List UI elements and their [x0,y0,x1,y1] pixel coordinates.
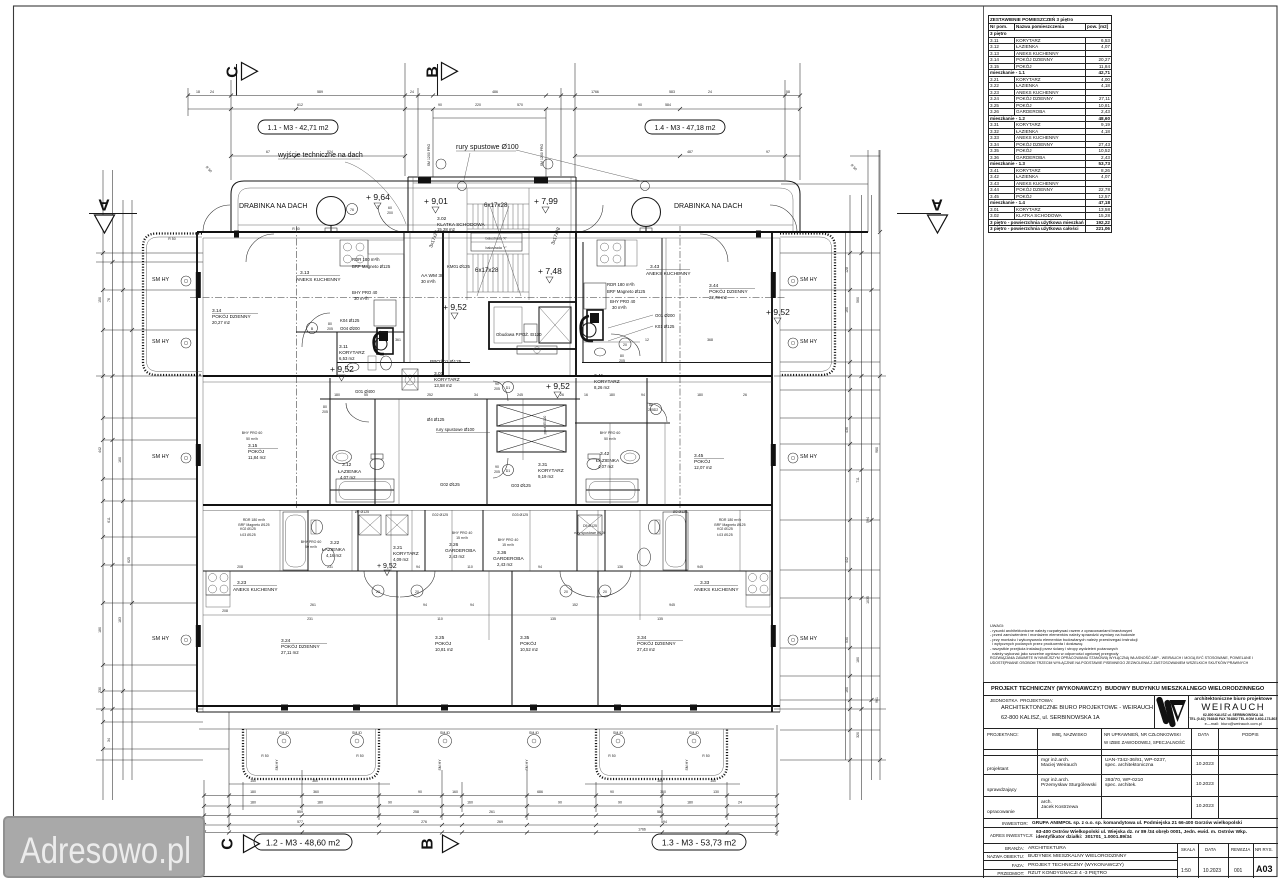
svg-text:150: 150 [98,297,102,303]
svg-text:+ 9,64: + 9,64 [366,192,390,202]
svg-text:SM-ID: SM-ID [440,731,450,735]
svg-text:16: 16 [584,393,588,397]
svg-text:559: 559 [297,810,303,814]
svg-text:76: 76 [350,208,354,212]
svg-text:320: 320 [856,732,860,738]
svg-text:15,28 m2: 15,28 m2 [437,227,456,232]
svg-text:+ 7,99: + 7,99 [534,196,558,206]
svg-text:3.02: 3.02 [437,216,447,222]
design office row with logo [984,696,1278,729]
svg-text:3.26: 3.26 [449,542,459,548]
svg-text:BRF Magneto Ø125: BRF Magneto Ø125 [607,289,646,294]
svg-text:POKÓJ DZIENNY: POKÓJ DZIENNY [212,313,251,320]
stairwell walls [443,232,576,376]
svg-text:3.23: 3.23 [237,580,247,586]
right dimension band [774,150,886,800]
projektant row [984,756,1278,775]
svg-text:BHY PRO 40: BHY PRO 40 [452,531,473,535]
svg-text:1.3 - M3 - 53,73 m2: 1.3 - M3 - 53,73 m2 [662,838,736,848]
svg-text:3.43: 3.43 [650,264,660,270]
svg-text:589: 589 [317,90,323,94]
roof access ladder label left [239,197,346,233]
roof strip outline [203,181,800,232]
dimension tick marks [101,94,882,835]
svg-text:6x17x28: 6x17x28 [475,267,499,274]
heating unit apt 1.1 [374,300,396,354]
svg-text:RDR 180 m³/h: RDR 180 m³/h [243,518,265,522]
stair landing balustrade [471,233,522,251]
svg-text:B: B [425,66,442,78]
svg-text:220: 220 [475,103,481,107]
internal wall band y505 [203,505,772,511]
svg-text:wyjście techniczne na dach: wyjście techniczne na dach [277,152,363,159]
section marker B bottom [420,835,459,853]
Adresowo.pl watermark [3,816,205,878]
svg-text:1.4 - M3 - 47,18 m2: 1.4 - M3 - 47,18 m2 [654,125,715,132]
svg-text:22,78 m2: 22,78 m2 [709,295,728,300]
room labels apt 1.1 [212,257,391,361]
bathroom apt 1.3 lower (bath band) [638,512,689,570]
svg-text:3.22: 3.22 [330,540,340,546]
svg-text:G03 Ø125: G03 Ø125 [512,513,528,517]
svg-text:20: 20 [415,590,419,594]
svg-text:POKÓJ DZIENNY: POKÓJ DZIENNY [709,288,748,295]
svg-text:94: 94 [538,565,542,569]
bottom dimension lines [204,712,777,836]
svg-text:ppoż. EI120: ppoż. EI120 [543,416,547,435]
roof access ladder label right [632,198,743,233]
svg-text:136: 136 [617,565,623,569]
svg-text:269: 269 [497,820,503,824]
svg-text:584: 584 [665,103,671,107]
room schedule table top right [988,15,1112,233]
svg-text:180: 180 [609,393,615,397]
section marker A left [89,196,137,234]
svg-text:160: 160 [845,307,849,313]
apartment label oval 1.4 [645,120,725,134]
svg-text:R 50: R 50 [850,163,858,171]
svg-text:135: 135 [657,617,663,621]
svg-text:BHY PRO 40: BHY PRO 40 [498,538,519,542]
svg-text:POKÓJ: POKÓJ [520,640,537,647]
svg-text:Ø2 Ø125: Ø2 Ø125 [673,510,687,514]
svg-text:+ 9,52: + 9,52 [377,563,397,570]
svg-text:205: 205 [494,387,500,391]
svg-text:980: 980 [875,447,879,453]
interior dimension numbers y396 [334,393,747,397]
elevation labels with triangles [330,192,790,576]
downspout label [456,144,650,191]
section marker A right [897,196,948,234]
svg-text:ANEKS KUCHENNY: ANEKS KUCHENNY [233,587,278,593]
svg-text:K02 Ø125: K02 Ø125 [240,527,256,531]
apartment 1.1 corridor walls upper band [296,332,404,376]
ventilation shafts with cross bracing [359,369,566,535]
svg-text:30 m³/h: 30 m³/h [421,279,436,284]
SM HY markers on side galleries [152,276,817,645]
svg-text:SM 1200 PRO: SM 1200 PRO [427,143,431,166]
apartment 1.4 entry walls upper band [583,238,662,356]
svg-text:2,43 m2: 2,43 m2 [497,562,513,567]
roof exit label [277,152,406,224]
svg-text:PPOŻ01 Ø125: PPOŻ01 Ø125 [430,358,462,365]
svg-text:10,81 m2: 10,81 m2 [435,647,454,652]
svg-text:180: 180 [334,393,340,397]
svg-text:945: 945 [697,565,703,569]
svg-text:R 50: R 50 [168,237,175,241]
door circles [307,204,662,598]
svg-text:2,43 m2: 2,43 m2 [449,554,465,559]
svg-text:24: 24 [738,801,742,805]
svg-text:SM HY: SM HY [685,759,689,771]
interior dimension row y615 [203,603,772,621]
svg-text:442: 442 [98,447,102,453]
apartment label oval 1.1 [258,120,338,134]
svg-text:90: 90 [610,790,614,794]
svg-text:110: 110 [467,565,473,569]
svg-text:3.44: 3.44 [709,283,719,289]
svg-text:611: 611 [107,517,111,523]
internal partial walls middle band [320,363,772,491]
internal vertical walls upper band [404,232,666,362]
bottom meta rows [984,844,1278,878]
svg-text:O04 Ø200: O04 Ø200 [340,326,360,331]
svg-text:balustrada 'X': balustrada 'X' [486,237,507,241]
svg-text:B: B [311,327,314,331]
svg-text:Ł03 Ø125: Ł03 Ø125 [717,533,732,537]
svg-text:94: 94 [416,565,420,569]
svg-text:24: 24 [410,90,414,94]
bathroom apt 1.2 (middle band left) [333,451,395,503]
svg-text:+ 9,52: + 9,52 [443,302,467,312]
room labels apt 1.4 [594,264,755,390]
svg-text:K01 Ø125: K01 Ø125 [655,324,675,329]
svg-text:18: 18 [196,90,200,94]
svg-text:34: 34 [107,738,111,742]
svg-text:94: 94 [470,603,474,607]
svg-text:POKÓJ: POKÓJ [435,640,452,647]
svg-text:4,07 m2: 4,07 m2 [598,464,614,469]
sprawdzajacy row [984,775,1278,797]
wardrobe X-box right bath band [578,515,602,535]
section marker C bottom [220,835,260,853]
svg-text:SM HY: SM HY [152,636,169,642]
left dimension band [96,170,229,800]
svg-text:231: 231 [327,565,333,569]
svg-text:361: 361 [395,338,401,342]
svg-text:KM01 Ø125: KM01 Ø125 [447,264,471,269]
svg-text:POKÓJ: POKÓJ [248,448,265,455]
svg-text:50 m³/h: 50 m³/h [604,437,616,441]
upper-right balcony railing [780,234,835,376]
svg-text:11,84 m2: 11,84 m2 [248,455,266,460]
svg-text:SM HY: SM HY [438,759,442,771]
svg-text:30 m³/h: 30 m³/h [354,296,369,301]
svg-text:Ø2 Ø125: Ø2 Ø125 [355,510,369,514]
axis lines [190,226,786,510]
svg-text:442: 442 [845,557,849,563]
svg-text:80: 80 [328,322,332,326]
svg-text:231: 231 [307,617,313,621]
svg-text:205: 205 [327,327,333,331]
svg-text:160: 160 [845,687,849,693]
svg-text:34: 34 [474,393,478,397]
svg-text:3.33: 3.33 [700,580,710,586]
svg-text:130: 130 [713,790,719,794]
stair flight lower [467,188,529,300]
svg-text:rury spustowe Ø100: rury spustowe Ø100 [456,144,519,151]
svg-text:BHY PRO 60: BHY PRO 60 [301,540,322,544]
svg-text:3.36: 3.36 [497,550,507,556]
svg-text:3.41: 3.41 [594,373,604,379]
svg-text:8,26 m2: 8,26 m2 [594,385,610,390]
room labels middle band [242,338,724,488]
svg-text:180: 180 [687,801,693,805]
svg-text:577: 577 [297,820,303,824]
svg-text:1.1 - M3 - 42,71 m2: 1.1 - M3 - 42,71 m2 [267,125,328,132]
svg-text:POKÓJ: POKÓJ [694,458,711,465]
UWAGI notes block [990,624,1278,665]
svg-text:584: 584 [657,810,663,814]
svg-text:SM HY: SM HY [800,454,817,460]
svg-text:97: 97 [766,150,770,154]
svg-text:360: 360 [313,790,319,794]
svg-text:205: 205 [494,470,500,474]
svg-text:3.25: 3.25 [435,635,445,641]
svg-text:BHY PRO 60: BHY PRO 60 [242,431,263,435]
svg-text:94: 94 [423,603,427,607]
svg-text:C: C [220,838,237,850]
apartment label oval 1.2 [254,834,352,850]
svg-text:20: 20 [376,590,380,594]
svg-text:20: 20 [603,590,607,594]
inwestor row [984,819,1278,828]
stairwell labels [421,202,562,365]
svg-text:12: 12 [645,338,649,342]
svg-text:K02 Ø125: K02 Ø125 [717,527,733,531]
svg-text:G02 Ø125: G02 Ø125 [440,482,460,487]
weirauch text block [1189,696,1278,729]
svg-text:90: 90 [495,465,499,469]
svg-text:R 50: R 50 [205,165,213,173]
bathroom apt 1.3 (middle band right) [586,451,640,503]
svg-text:3.15: 3.15 [248,443,258,449]
svg-text:DRABINKA NA DACH: DRABINKA NA DACH [239,203,307,210]
svg-text:94: 94 [641,393,645,397]
svg-text:R 50: R 50 [608,754,615,758]
svg-text:205: 205 [619,359,625,363]
main outer walls [197,184,868,729]
designers header row [984,729,1278,750]
svg-text:DRABINKA NA DACH: DRABINKA NA DACH [674,203,742,210]
room labels bottom band [233,510,746,655]
svg-text:135: 135 [550,617,556,621]
svg-text:90: 90 [388,801,392,805]
svg-text:90: 90 [618,801,622,805]
svg-text:SM-ID: SM-ID [689,731,699,735]
svg-text:90: 90 [418,790,422,794]
svg-text:+ 9,52: + 9,52 [546,381,570,391]
svg-text:R 50: R 50 [356,754,363,758]
svg-text:4,16 m2: 4,16 m2 [326,553,342,558]
svg-text:60: 60 [388,206,392,210]
tower window marks [418,143,553,183]
svg-text:3.35: 3.35 [520,635,530,641]
upper-left balcony railing [143,234,202,376]
section marker B top [425,63,458,96]
svg-text:30 m³/h: 30 m³/h [612,305,627,310]
svg-text:3.31: 3.31 [538,462,548,468]
svg-text:BHY PRO 40: BHY PRO 40 [352,290,378,295]
svg-text:R 50: R 50 [702,754,709,758]
svg-text:560: 560 [856,297,860,303]
svg-text:POKÓJ DZIENNY: POKÓJ DZIENNY [281,643,320,650]
svg-text:80: 80 [620,354,624,358]
svg-text:205: 205 [322,410,328,414]
svg-text:3.24: 3.24 [281,638,291,644]
svg-text:110: 110 [437,617,443,621]
elevator shaft [489,302,576,354]
svg-text:76: 76 [107,298,111,302]
svg-text:55: 55 [364,393,368,397]
internal vertical walls lower band [280,510,740,706]
svg-text:RDR 180 m³/h: RDR 180 m³/h [719,518,741,522]
svg-text:D1: D1 [506,469,511,473]
top dimension numbers [196,90,790,154]
svg-text:27,11 m2: 27,11 m2 [281,650,299,655]
svg-text:SM HY: SM HY [525,759,529,771]
bottom-left balcony railing [243,729,379,779]
svg-text:RDR 180 m³/h: RDR 180 m³/h [607,282,635,287]
svg-text:261: 261 [489,810,495,814]
svg-text:+ 9,52: + 9,52 [330,364,354,374]
svg-text:ANEKS KUCHENNY: ANEKS KUCHENNY [296,277,341,283]
svg-text:6,53 m2: 6,53 m2 [339,356,355,361]
apartment label oval 1.3 [652,834,746,850]
svg-text:balustrada 'Y': balustrada 'Y' [486,246,507,250]
left dimension numbers (rotated) [98,297,131,742]
stair tower top [408,177,576,232]
svg-text:20,27 m2: 20,27 m2 [212,320,231,325]
svg-text:3.45: 3.45 [694,453,704,459]
svg-text:BRF Magneto Ø125: BRF Magneto Ø125 [714,523,745,527]
svg-text:208: 208 [222,609,228,613]
svg-text:+ 7,48: + 7,48 [538,266,562,276]
svg-text:26: 26 [743,393,747,397]
svg-text:BRF Magneto Ø125: BRF Magneto Ø125 [352,264,391,269]
svg-text:A: A [931,196,943,213]
svg-text:R 50: R 50 [292,227,299,231]
svg-text:205: 205 [648,408,654,412]
svg-text:3.11: 3.11 [339,344,348,350]
svg-text:C: C [225,66,242,78]
svg-text:SM HY: SM HY [152,277,169,283]
svg-text:436: 436 [845,427,849,433]
internal wall y571 [203,570,772,572]
svg-text:SM-ID: SM-ID [279,731,289,735]
svg-text:200: 200 [387,211,393,215]
svg-text:SM-ID: SM-ID [529,731,539,735]
kitchen unit apt 1.4 top [597,240,637,266]
svg-text:1766: 1766 [591,90,599,94]
svg-text:BHY PRO 40: BHY PRO 40 [610,299,636,304]
svg-text:SM HY: SM HY [800,636,817,642]
svg-text:9,19 m2: 9,19 m2 [538,474,554,479]
svg-text:RDR 180 m³/h: RDR 180 m³/h [352,257,380,262]
svg-text:26: 26 [560,393,564,397]
svg-text:276: 276 [421,820,427,824]
svg-text:261: 261 [310,603,316,607]
svg-text:152: 152 [572,603,578,607]
svg-text:1766: 1766 [638,828,646,832]
svg-text:961: 961 [875,697,879,703]
internal wall band y376 [203,376,772,382]
svg-text:180: 180 [697,393,703,397]
svg-text:252: 252 [427,393,433,397]
svg-text:SM HY: SM HY [800,277,817,283]
svg-text:ANEKS KUCHENNY: ANEKS KUCHENNY [694,587,739,593]
svg-text:594: 594 [866,517,870,523]
svg-text:15 m³/h: 15 m³/h [502,543,514,547]
top dimension lines [188,63,880,232]
svg-text:15 m³/h: 15 m³/h [456,536,468,540]
svg-text:570: 570 [517,103,523,107]
smoke detector circles on bottom wall [261,731,709,771]
svg-text:B: B [420,838,437,850]
heating unit apt 1.4 [581,283,606,341]
svg-text:rury spustowe Ø100: rury spustowe Ø100 [436,427,475,432]
misc R50 labels [168,163,857,434]
svg-text:A: A [98,196,110,213]
weirauch logo mark [1155,697,1188,728]
svg-text:24: 24 [210,90,214,94]
right panel separator [983,6,985,877]
opracowanie row [984,797,1278,819]
svg-text:BRF Magneto Ø125: BRF Magneto Ø125 [238,523,269,527]
window marks on walls [196,231,776,711]
svg-text:SM 1200 PRO: SM 1200 PRO [540,143,544,166]
spacer row [984,750,1278,757]
svg-text:G02 Ø125: G02 Ø125 [432,513,448,517]
svg-text:3.01: 3.01 [434,371,444,377]
svg-text:180: 180 [856,657,860,663]
title bar row [984,682,1278,696]
svg-text:208: 208 [237,565,243,569]
right dimension numbers (rotated) [845,267,879,738]
svg-text:6x17x28: 6x17x28 [484,202,508,209]
internal vertical walls middle band [330,378,665,505]
svg-text:3.42: 3.42 [600,451,610,457]
svg-text:180: 180 [317,801,323,805]
svg-text:SM HY: SM HY [152,339,169,345]
bathroom apt 1.2 lower (bath band) [283,512,335,570]
svg-text:245: 245 [517,393,523,397]
bottom-right balcony railing [596,729,727,779]
svg-text:3.21: 3.21 [393,545,403,551]
svg-text:625: 625 [127,557,131,563]
svg-text:50 m³/h: 50 m³/h [246,437,258,441]
svg-text:368: 368 [707,338,713,342]
section marker C top [225,63,258,96]
svg-text:486: 486 [492,90,498,94]
svg-text:D2: D2 [654,408,659,412]
svg-text:4,07 m2: 4,07 m2 [340,475,356,480]
svg-text:711: 711 [856,477,860,483]
svg-text:27,43 m2: 27,43 m2 [637,647,656,652]
svg-text:24: 24 [708,90,712,94]
svg-text:128: 128 [845,267,849,273]
interior dimension numbers y568 band [237,565,703,569]
